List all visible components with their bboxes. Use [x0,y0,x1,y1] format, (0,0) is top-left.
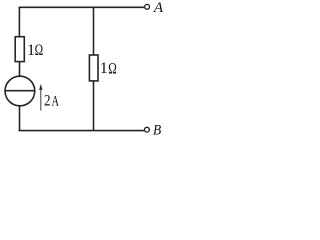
wire source to bottom wire [19,106,21,131]
resistor R2 (middle 1 ohm) body [89,55,98,81]
current direction arrow [39,84,42,111]
current source IS bar [5,90,35,92]
svg-text:Ω: Ω [108,60,117,77]
svg-text:B: B [153,122,161,137]
terminal A circle [145,4,150,9]
wire R1 to current source [19,62,21,77]
terminal B circle [145,127,150,132]
svg-text:2: 2 [44,93,51,110]
wire middle branch upper [93,7,95,55]
svg-text:A: A [153,0,164,16]
wire top horizontal [19,6,145,8]
svg-text:Ω: Ω [35,42,44,59]
resistor R1 (left 1 ohm) body [15,37,24,62]
wire middle branch lower [93,81,95,131]
wire bottom horizontal [19,130,145,132]
wire left branch upper [18,7,20,37]
current source IS circle [5,76,35,106]
svg-text:A: A [52,94,60,110]
svg-text:1: 1 [100,60,108,77]
